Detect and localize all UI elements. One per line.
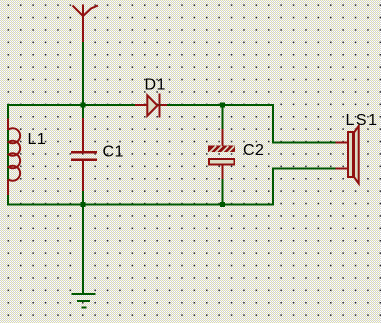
wire: C2 top lead wire [222,106,224,129]
svg-text:LS1: LS1 [346,112,379,129]
loudspeaker LS1 [336,126,359,184]
node A: junction top-left [81,103,86,108]
node B: junction top-right [220,103,225,108]
wire: antenna drop [82,42,84,106]
wire: C2 bottom lead wire [222,179,224,204]
wire: right vertical upper [272,104,274,143]
wire: top horizontal net [7,104,274,106]
wire: bottom horizontal net [7,204,274,206]
capacitor C2 (polarised) [208,129,241,179]
wire: C1 bottom lead wire [82,191,84,204]
wire: speaker bottom feed [272,167,336,169]
wire: speaker top feed [272,141,336,143]
svg-text:C2: C2 [243,142,264,159]
inductor L1 [8,119,20,196]
svg-text:D1: D1 [145,77,166,94]
wire: left vertical branch [7,104,9,206]
capacitor C1 [71,118,97,191]
wire: right vertical lower [272,167,274,205]
svg-text:L1: L1 [28,131,47,148]
wire: C1 top lead wire [82,106,84,118]
antenna AE [73,5,99,43]
svg-text:C1: C1 [103,144,124,161]
node D: junction bottom-right [220,202,225,207]
ground [72,293,96,309]
wire: ground stem [82,206,84,294]
diode D1 [135,94,167,118]
node C: junction bottom-left [81,202,86,207]
